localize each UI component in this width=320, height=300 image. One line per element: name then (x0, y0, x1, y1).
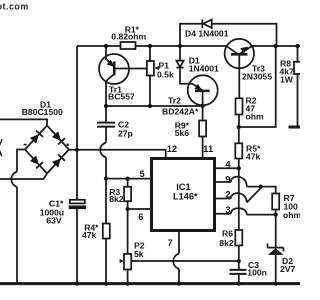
svg-text:47k: 47k (82, 230, 97, 240)
wire pin 2 row with hop (215, 198, 231, 200)
junction rail R4 (104, 282, 108, 286)
potentiometer P2 5k (120, 254, 132, 284)
wire mid column pin4 node to R6 (238, 168, 240, 230)
wire top rail (77, 45, 300, 47)
svg-text:63V: 63V (46, 215, 62, 225)
resistor R5 47k (238, 127, 240, 143)
junction rail Tr1 emitter (104, 44, 108, 48)
svg-text:2: 2 (225, 190, 230, 200)
resistor R6 8k2 (235, 230, 242, 246)
transistor Tr2 BD242A (188, 75, 218, 106)
junction Tr1 collector node (104, 104, 108, 108)
wire pin 9 row with hop (215, 181, 231, 183)
resistor R3 8k2 (124, 179, 131, 209)
svg-text:4: 4 (225, 159, 231, 169)
node minus mark bridge (24, 144, 27, 146)
junction pin6 R3 bottom (126, 207, 130, 211)
svg-text:7: 7 (168, 238, 173, 248)
wire pin 5 row (106, 178, 151, 180)
junction pins 9 2 node (259, 185, 263, 189)
svg-text:Tr2: Tr2 (168, 96, 181, 106)
junction pin4 R5 bottom (237, 166, 241, 170)
wire IC pin 4 row (215, 167, 239, 169)
junction rail D1 D4 (178, 44, 182, 48)
svg-text:B80C1500: B80C1500 (22, 107, 63, 117)
svg-text:1N4001: 1N4001 (189, 64, 219, 74)
IC1 L146 box (152, 159, 215, 231)
wire hop C2 lead over plus line (100, 143, 106, 158)
junction P1 bottom node (148, 104, 152, 108)
wire pin 6 row (128, 208, 151, 210)
svg-text:ohm: ohm (283, 210, 300, 220)
transistor Tr3 2N3055 (225, 39, 254, 98)
svg-text:R6: R6 (222, 228, 233, 238)
bridge rectifier D1 B80C1500 (25, 126, 69, 174)
capacitor C3 100n (230, 270, 247, 284)
junction rail pin7 (177, 282, 181, 286)
node plus mark bridge (67, 144, 69, 146)
resistor R8 4k7 (289, 46, 302, 127)
svg-text:5k: 5k (134, 249, 144, 259)
wire left inner column to R4 (105, 179, 107, 224)
svg-text:11: 11 (203, 144, 213, 154)
svg-text:5k6: 5k6 (175, 128, 190, 138)
junction R2 R5 node (237, 125, 241, 129)
diode D1 1N4001 (176, 46, 191, 84)
svg-text:8k2: 8k2 (109, 194, 124, 204)
wire bridge minus to bottom rail with hop (17, 150, 25, 172)
svg-text:2V7: 2V7 (280, 264, 296, 274)
resistor R7 100ohm (261, 187, 279, 215)
junction P2 wiper C3 (237, 259, 241, 263)
diode D4 1N4001 (202, 20, 211, 29)
zener diode D2 2V7 (268, 215, 284, 284)
capacitor C1 1000u (69, 200, 86, 209)
svg-text:A: A (0, 149, 3, 159)
svg-text:1W: 1W (280, 74, 294, 84)
junction pin3 R7 bottom (274, 213, 278, 217)
wire AC input 1 (0, 119, 47, 125)
svg-text:3: 3 (225, 205, 230, 215)
wire node to output rail riser (239, 46, 276, 127)
svg-text:ot.com: ot.com (0, 2, 29, 12)
capacitor C2 27p (97, 106, 115, 143)
wire P2 wiper row (131, 260, 239, 262)
wire pin 3 row with hop (215, 213, 231, 215)
svg-text:9: 9 (225, 174, 230, 184)
resistor R9 5k6 (199, 106, 206, 157)
junction rail R8 top (295, 44, 299, 48)
svg-text:BC557: BC557 (108, 92, 135, 102)
svg-text:D4 1N4001: D4 1N4001 (185, 28, 229, 38)
wire IC pin 7 with hop (178, 231, 180, 254)
junction rail D2 (274, 282, 278, 286)
junction rail output riser (274, 44, 278, 48)
potentiometer P1 0.5k (147, 46, 159, 106)
wire node row y106 (106, 105, 203, 107)
wire AC input 2 (0, 174, 47, 180)
junction pin5 R3 (126, 177, 130, 181)
resistor R2 47ohm (236, 98, 243, 114)
svg-text:5: 5 (140, 169, 145, 179)
resistor R4 47k (103, 224, 110, 239)
wire left column below C1 (76, 209, 78, 284)
junction rail C3 (237, 282, 241, 286)
transistor Tr1 BC557 (99, 46, 148, 106)
junction rail C1 (75, 282, 79, 286)
svg-text:8k2: 8k2 (219, 238, 234, 248)
svg-text:BD242A*: BD242A* (162, 107, 199, 117)
resistor R1 0.82ohm (121, 42, 136, 49)
svg-text:ohm: ohm (246, 112, 264, 122)
svg-text:47k: 47k (246, 152, 261, 162)
svg-text:0.82ohm: 0.82ohm (111, 32, 146, 42)
wire R2 bottom to node (238, 115, 240, 128)
svg-text:100n: 100n (247, 267, 267, 277)
wire bottom rail (0, 282, 300, 285)
svg-text:12: 12 (167, 144, 177, 154)
svg-text:6: 6 (138, 212, 143, 222)
junction rail P1 top (148, 44, 152, 48)
junction rail P2 (126, 282, 130, 286)
junction Tr2 collector node (201, 104, 205, 108)
svg-text:L146*: L146* (173, 191, 198, 201)
junction pin5 left (104, 177, 108, 181)
diode D4 loop wire (180, 24, 277, 46)
svg-text:2N3055: 2N3055 (242, 72, 272, 82)
svg-text:27p: 27p (118, 129, 133, 139)
wire left column down from rail (76, 46, 78, 200)
wire R3 node down to P2 (127, 209, 129, 254)
junction bridge plus (75, 148, 79, 152)
svg-text:0.5k: 0.5k (157, 69, 174, 79)
wire plus line bridge to IC pin 12 (69, 150, 166, 157)
